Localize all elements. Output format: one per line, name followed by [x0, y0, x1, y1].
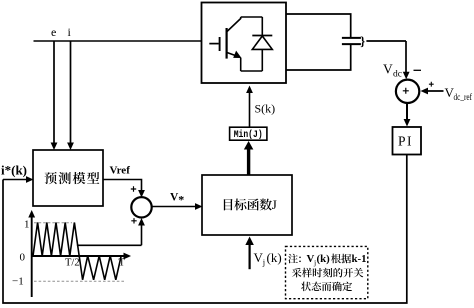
svg-text:S(k): S(k) — [255, 102, 276, 116]
transistor Q1 emitter with arrow — [227, 51, 242, 58]
transistor Q1 IGBT gate lead — [209, 43, 219, 45]
note text line 3 — [301, 282, 352, 292]
svg-text:Min(J): Min(J) — [234, 129, 263, 141]
svg-text:(k): (k) — [317, 253, 331, 265]
wire converter top output to capacitor — [286, 14, 351, 37]
wire emitter stub — [240, 58, 242, 71]
axis label T — [119, 258, 126, 269]
wire Vj(k) into objective function — [245, 237, 254, 270]
plus sign at S2 right input — [429, 82, 434, 87]
dashed level +1 — [34, 222, 72, 224]
summing junction S2 — [396, 80, 419, 103]
block U2 objective function (目标函数J) — [202, 175, 292, 235]
carrier waveform horizontal axis — [32, 253, 131, 260]
axis label -1 — [12, 276, 24, 288]
block U3 Min(J) — [230, 127, 267, 141]
wire objective J to Min(J), thick arrow — [244, 141, 254, 175]
capacitor brace mark — [360, 34, 365, 48]
block U1 prediction model (预测模型) — [33, 150, 103, 206]
svg-text:−1: −1 — [12, 276, 24, 288]
wire converter bottom output to capacitor — [286, 45, 351, 70]
node Vdc_ref label — [445, 85, 473, 102]
svg-text:}: } — [360, 34, 365, 48]
summing junction S1 — [131, 197, 151, 217]
svg-text:1: 1 — [24, 219, 30, 231]
svg-text:J: J — [272, 197, 277, 212]
node i*(k) label — [1, 163, 27, 178]
wire e measurement drop into prediction model — [51, 41, 58, 150]
svg-text:Vref: Vref — [110, 165, 131, 177]
node V* label — [170, 192, 184, 207]
svg-text:i*(k): i*(k) — [1, 163, 27, 178]
block U4 PI controller — [393, 127, 422, 155]
note box dashed — [286, 246, 368, 298]
node Vref label — [110, 165, 131, 177]
wire S(k) from Min(J) to converter — [246, 86, 253, 128]
wire S2 to PI — [404, 103, 411, 126]
svg-text:dc_ref: dc_ref — [454, 92, 473, 102]
note text line 1 — [288, 253, 366, 267]
svg-text:j: j — [262, 257, 265, 267]
note text line 2 — [292, 268, 363, 278]
block converter — [202, 3, 287, 84]
node Vdc label — [383, 62, 402, 80]
axis label T/2 — [65, 258, 80, 269]
plus sign at S1 bottom input — [131, 218, 136, 223]
wire PI output feedback to i*(k) — [3, 155, 407, 303]
wire carrier into S1 from below — [77, 218, 145, 245]
wire Vref to summing junction S1 — [103, 180, 145, 198]
wire top input bus e,i — [34, 40, 203, 42]
node S(k) label — [255, 102, 276, 116]
svg-text:k-1: k-1 — [352, 253, 367, 265]
wire i measurement drop into prediction model — [67, 41, 74, 150]
svg-text:V: V — [383, 62, 393, 77]
plus sign at S1 top input — [131, 186, 136, 191]
node e label — [51, 25, 56, 39]
wire V* from S1 to objective function — [152, 203, 203, 210]
diode D1 (pointing up, cathode bar on top) — [252, 36, 272, 50]
wire Vdc sense to summing junction S2 — [366, 41, 409, 79]
dashed level -1 — [34, 280, 126, 282]
svg-text:*: * — [178, 193, 184, 207]
transistor Q1 body bar — [226, 28, 228, 59]
svg-text:(k): (k) — [267, 250, 282, 265]
transistor Q1 gate bar — [219, 37, 221, 51]
minus sign at S2 top input — [414, 69, 422, 71]
svg-text:e: e — [51, 25, 56, 39]
axis label 0 — [20, 252, 26, 264]
wire Vdc_ref into S2 — [421, 88, 444, 95]
wire IGBT top rail — [241, 16, 263, 18]
capacitor C1 plates — [342, 38, 361, 44]
axis label 1 — [24, 219, 30, 231]
svg-text:0: 0 — [20, 252, 26, 264]
node Vj(k) label — [254, 250, 282, 267]
svg-text:T: T — [119, 258, 126, 269]
wire diode branch vertical — [261, 17, 263, 71]
node i label — [68, 25, 72, 39]
svg-text:T/2: T/2 — [65, 258, 80, 269]
wire i*(k) into prediction model — [3, 176, 34, 183]
svg-text:dc: dc — [393, 70, 402, 80]
carrier waveform vertical axis — [28, 210, 35, 297]
wire IGBT bottom rail — [241, 70, 263, 72]
svg-text:PI: PI — [398, 134, 413, 149]
carrier triangle waveform — [33, 223, 121, 280]
transistor Q1 collector — [227, 17, 241, 32]
